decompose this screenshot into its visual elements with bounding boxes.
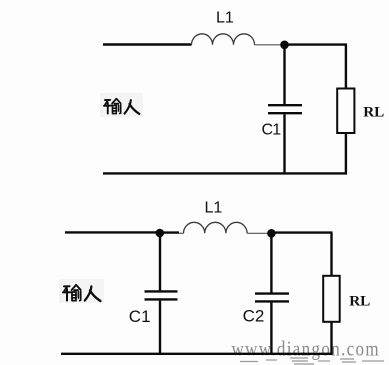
svg-text:C1: C1 xyxy=(262,121,282,138)
svg-text:RL: RL xyxy=(363,104,384,121)
svg-text:L1: L1 xyxy=(216,9,234,26)
svg-text:RL: RL xyxy=(349,293,370,310)
svg-text:L1: L1 xyxy=(205,200,223,217)
svg-text:C1: C1 xyxy=(129,307,151,326)
svg-text:C2: C2 xyxy=(243,306,265,325)
